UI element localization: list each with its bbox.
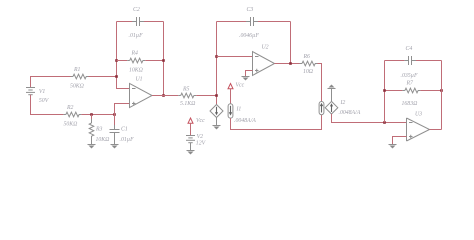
Vcc arrow at V2 — [188, 118, 205, 124]
capacitor C4 — [401, 45, 418, 79]
resistor R5 — [178, 86, 196, 107]
node R2/R3 junction — [90, 113, 93, 116]
wire U3 output to right column — [430, 129, 442, 131]
source I2 current-controlled current source — [319, 100, 361, 116]
resistor R6 — [300, 54, 318, 75]
wire battery V2 to ground — [190, 143, 192, 151]
wire I1 diamond bottom to ground — [216, 118, 218, 126]
svg-text:.0048A/A: .0048A/A — [339, 109, 361, 116]
svg-text:U2: U2 — [262, 45, 269, 51]
svg-text:5.1KΩ: 5.1KΩ — [180, 101, 195, 107]
svg-text:R5: R5 — [182, 86, 190, 92]
ground at U2 plus — [242, 77, 250, 81]
node C3 right / U2 output — [289, 62, 292, 65]
svg-text:R3: R3 — [95, 127, 103, 133]
ground above I2 — [328, 85, 336, 89]
ground below C1 — [111, 145, 119, 149]
ground below V2 — [187, 151, 195, 155]
svg-text:U1: U1 — [136, 77, 143, 83]
capacitor C2 — [129, 7, 145, 39]
svg-text:Vcc: Vcc — [196, 118, 205, 124]
node R4 right / column B — [162, 59, 165, 62]
wire R1 to node A column — [89, 76, 117, 78]
svg-text:R1: R1 — [73, 67, 81, 73]
op-amp U1 — [130, 77, 153, 108]
op-amp U3 — [407, 112, 430, 142]
wire Vcc arrow to battery V2 — [190, 123, 192, 135]
svg-text:U3: U3 — [415, 112, 422, 118]
node column C / R5 row — [215, 94, 218, 97]
wire stage3 right column — [441, 61, 443, 130]
wire C4 row right — [416, 60, 442, 62]
svg-text:C4: C4 — [406, 45, 413, 52]
svg-text:1683Ω: 1683Ω — [402, 101, 418, 107]
svg-text:.01µF: .01µF — [120, 137, 135, 143]
wire R6 to I2 pill column — [318, 64, 322, 102]
capacitor C1 — [110, 115, 135, 145]
battery V1 — [26, 88, 50, 105]
node A / R1 junction — [115, 75, 118, 78]
node stage3 left column / input row — [383, 121, 386, 124]
svg-text:.0048A/A: .0048A/A — [234, 117, 256, 124]
wire U2 minus input — [217, 56, 253, 58]
node R7 left junction — [383, 89, 386, 92]
svg-text:C2: C2 — [133, 7, 140, 13]
wire I2 diamond top to ground — [331, 89, 333, 102]
wire I2 diamond bottom to U3 minus input — [332, 114, 407, 123]
svg-text:V2: V2 — [197, 134, 204, 140]
node column B / output row — [162, 94, 165, 97]
node R7 right junction — [440, 89, 443, 92]
wire U1 output to R5 — [152, 95, 178, 97]
svg-text:R6: R6 — [303, 54, 311, 60]
resistor R4 — [127, 50, 145, 74]
svg-text:50KΩ: 50KΩ — [64, 122, 78, 128]
op-amp U2 — [253, 45, 275, 76]
svg-text:12V: 12V — [196, 140, 207, 146]
wire battery V1 bottom to R2 — [31, 95, 64, 115]
wire R4 row right — [145, 60, 163, 62]
wire plus input riser — [115, 104, 130, 115]
wire I1 pill bottom to I2 pill bottom — [231, 115, 322, 130]
svg-text:.01µF: .01µF — [129, 33, 144, 39]
wire stage3 left column — [384, 61, 386, 123]
wire U3 plus to ground — [393, 137, 407, 145]
node C1 / op-amp plus junction — [113, 113, 116, 116]
wire C3 row left — [217, 21, 247, 23]
ground below I1 — [213, 126, 221, 130]
svg-text:R7: R7 — [406, 81, 415, 87]
wire Vcc arrow to I1 pill — [230, 89, 232, 104]
svg-text:V1: V1 — [39, 89, 46, 95]
svg-text:10KΩ: 10KΩ — [96, 137, 110, 143]
svg-text:10KΩ: 10KΩ — [129, 68, 143, 74]
wire U2 output to R6 — [275, 63, 300, 65]
svg-text:R2: R2 — [66, 105, 74, 111]
resistor R7 — [402, 81, 421, 108]
svg-text:I1: I1 — [236, 107, 242, 113]
wire C2 row left — [117, 21, 133, 23]
wire C3 row right — [258, 21, 291, 23]
svg-text:50KΩ: 50KΩ — [70, 84, 84, 90]
wire C2 row right — [144, 21, 164, 23]
battery V2 — [186, 134, 207, 146]
Vcc arrow at I1 — [228, 83, 245, 89]
svg-text:C1: C1 — [121, 127, 128, 133]
wire R7 row left — [385, 90, 403, 92]
resistor R2 — [63, 105, 81, 128]
svg-text:.0046µF: .0046µF — [239, 32, 259, 39]
wire C4 row left — [385, 60, 405, 62]
wire R7 row right — [420, 90, 441, 92]
wire C3 right column down to U2 output row — [290, 22, 292, 64]
svg-text:50V: 50V — [39, 98, 50, 104]
resistor R3 — [89, 115, 109, 145]
wire R4 row left — [117, 60, 128, 62]
wire R5 to column C — [196, 95, 216, 97]
svg-text:I2: I2 — [340, 100, 346, 106]
wire node A column C2/R4/R1 to minus input — [117, 22, 130, 89]
wire U2 plus to ground — [246, 71, 253, 77]
wire battery V1 top to R1 — [31, 77, 71, 88]
ground below R3 — [88, 145, 96, 149]
ground at U3 plus — [389, 145, 397, 149]
resistor R1 — [70, 67, 89, 90]
svg-text:C3: C3 — [247, 7, 254, 13]
node A / R4 left junction — [115, 59, 118, 62]
node column C / U2 minus branch — [215, 55, 218, 58]
svg-text:.035µF: .035µF — [401, 73, 418, 79]
wire R2 to C1 node through R3 node — [81, 114, 114, 116]
wire column C from C3 down to I1 diamond — [216, 22, 218, 105]
source I1 current-controlled current source — [210, 104, 256, 124]
wire feedback column B — [163, 22, 165, 96]
svg-text:Vcc: Vcc — [236, 83, 245, 89]
capacitor C3 — [239, 7, 259, 39]
svg-text:10Ω: 10Ω — [303, 69, 313, 75]
svg-text:R4: R4 — [131, 50, 139, 57]
